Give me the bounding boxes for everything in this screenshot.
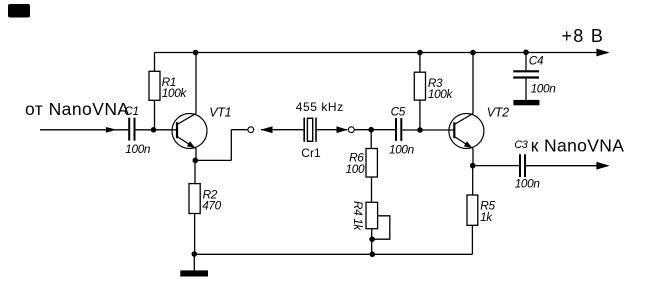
- svg-text:C1: C1: [124, 104, 138, 118]
- capacitor C4: [513, 52, 539, 100]
- capacitor C5: [396, 118, 401, 141]
- capacitor C3: [520, 154, 525, 177]
- svg-text:+8 В: +8 В: [562, 26, 605, 46]
- resistor R6: [366, 130, 377, 203]
- wire C5 to VT2 base: [402, 129, 454, 131]
- svg-text:100n: 100n: [125, 142, 151, 156]
- ground: [180, 254, 208, 276]
- svg-text:C4: C4: [529, 54, 544, 68]
- node top rail / VT1 collector junction: [193, 50, 199, 56]
- svg-text:VT2: VT2: [487, 106, 509, 120]
- wire Cr1 left with arrow: [261, 129, 304, 131]
- svg-text:100n: 100n: [515, 176, 541, 190]
- svg-text:VT1: VT1: [209, 105, 231, 119]
- resistor R1: [149, 53, 160, 131]
- arrow pointing left: [261, 126, 273, 133]
- transistor VT2: [449, 53, 484, 166]
- svg-text:от NanoVNA: от NanoVNA: [25, 99, 130, 119]
- wire VT2 emitter to C3: [473, 165, 519, 167]
- wire emitter to crystal terminal: [195, 130, 247, 161]
- resistor R3: [414, 53, 425, 131]
- node VT1 emitter: [193, 158, 199, 164]
- +8V arrow: [596, 49, 609, 57]
- svg-text:455 kHz: 455 kHz: [296, 100, 344, 114]
- terminal (open circle) right of Cr1: [348, 127, 354, 133]
- svg-text:100k: 100k: [428, 87, 454, 101]
- node ground rail / R2: [192, 251, 198, 257]
- ground (C4): [513, 100, 539, 105]
- node R6 top junction: [368, 127, 374, 133]
- svg-text:100k: 100k: [162, 86, 188, 100]
- capacitor C1: [129, 118, 134, 141]
- svg-text:470: 470: [202, 198, 221, 212]
- svg-text:к NanoVNA: к NanoVNA: [531, 136, 625, 156]
- node top rail / R3 junction: [417, 50, 423, 56]
- resistor R2: [189, 160, 200, 254]
- wire Cr1 right with arrow: [317, 129, 348, 131]
- node top rail / VT2 collector junction: [470, 50, 476, 56]
- node top rail / C4 junction: [523, 50, 529, 56]
- wire +8V top rail: [155, 52, 609, 54]
- wire input line: [40, 129, 128, 131]
- svg-text:100n: 100n: [389, 142, 415, 156]
- wire output line: [526, 165, 608, 167]
- svg-text:Cr1: Cr1: [301, 146, 321, 160]
- svg-text:100n: 100n: [531, 81, 557, 95]
- corner mark: [8, 4, 30, 18]
- output arrow: [596, 162, 609, 170]
- svg-text:100: 100: [346, 162, 365, 176]
- wire C1 to base node: [136, 129, 178, 131]
- svg-text:R4 1k: R4 1k: [351, 201, 365, 232]
- node R3 bottom / VT2 base: [417, 127, 423, 133]
- crystal Cr1: [304, 118, 316, 142]
- wire ground rail: [194, 253, 472, 255]
- transistor VT1: [172, 53, 207, 161]
- trimmer R4: [366, 202, 390, 257]
- input arrow: [106, 127, 117, 133]
- svg-text:C3: C3: [514, 139, 529, 151]
- arrow pointing right: [337, 126, 348, 133]
- wire terminal to C5: [354, 129, 395, 131]
- node VT2 emitter: [470, 163, 476, 169]
- svg-text:C5: C5: [391, 105, 406, 119]
- resistor R5: [467, 166, 478, 255]
- svg-text:1k: 1k: [480, 210, 493, 224]
- node VT1 base / R1: [151, 127, 157, 133]
- terminal (open circle) left of Cr1: [248, 127, 254, 133]
